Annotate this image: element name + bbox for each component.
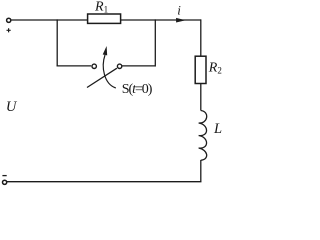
wire R1 to top-right corner <box>121 19 201 21</box>
terminal minus (bottom-left) <box>3 180 7 184</box>
svg-text:U: U <box>6 99 18 115</box>
svg-text:L: L <box>213 121 222 137</box>
inductor L <box>199 111 207 161</box>
wire switch branch right vertical <box>154 19 156 66</box>
plus polarity label <box>7 28 11 32</box>
svg-text:R2: R2 <box>208 60 222 75</box>
wire inductor to bottom corner <box>200 160 202 182</box>
switch contact left <box>92 64 96 68</box>
switch blade <box>87 68 117 87</box>
resistor R1 <box>88 14 121 23</box>
wire bottom <box>7 181 202 183</box>
current arrow <box>176 18 186 23</box>
wire switch branch left vertical <box>56 19 58 66</box>
svg-text:R1: R1 <box>94 0 108 15</box>
resistor R2 <box>195 56 206 83</box>
wire switch branch left horizontal <box>57 65 92 67</box>
wire top-left to R1 <box>11 19 87 21</box>
switch contact right <box>117 64 121 68</box>
svg-text:S(t=0): S(t=0) <box>122 82 153 97</box>
wire R2 to inductor <box>200 84 202 111</box>
svg-text:i: i <box>177 3 181 18</box>
wire right side down to R2 <box>200 19 202 56</box>
switch actuation arrow <box>103 55 116 88</box>
minus polarity label <box>2 175 6 177</box>
wire switch branch right horizontal <box>122 65 155 67</box>
terminal plus (top-left) <box>7 18 11 22</box>
